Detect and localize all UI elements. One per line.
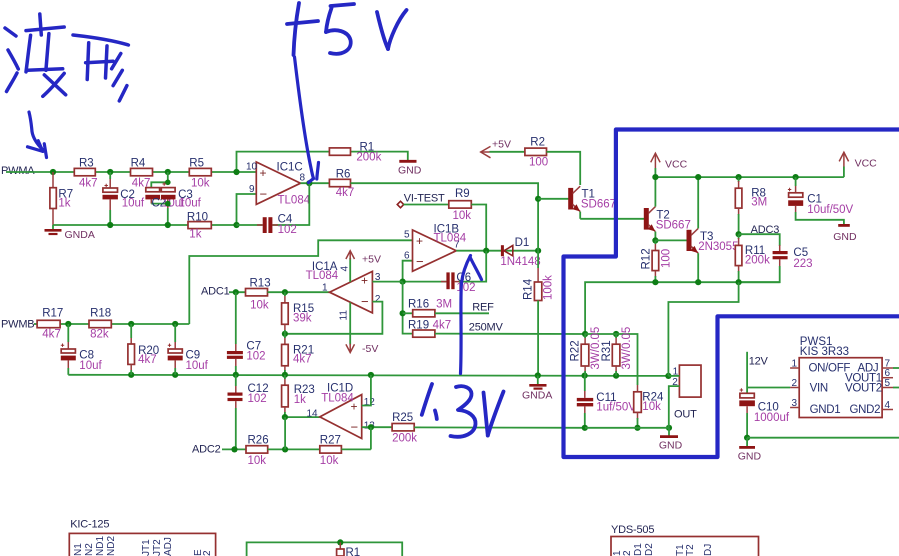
node 12V	[747, 352, 790, 394]
transistor T1	[568, 186, 616, 219]
svg-text:TL084: TL084	[278, 195, 311, 207]
wire VCC rail	[652, 174, 844, 180]
resistor R14	[523, 251, 555, 376]
wire 12V ground rail	[744, 435, 899, 441]
ground GND under C1	[833, 225, 857, 243]
wire GNDA rail	[68, 372, 671, 379]
svg-text:1N4148: 1N4148	[500, 256, 540, 268]
svg-text:1k: 1k	[58, 198, 70, 210]
svg-text:VI-TEST: VI-TEST	[404, 192, 445, 204]
svg-text:REF: REF	[472, 302, 494, 314]
svg-text:2: 2	[375, 294, 381, 305]
svg-text:YDS-505: YDS-505	[611, 524, 654, 536]
svg-text:39k: 39k	[293, 313, 312, 325]
svg-text:D1: D1	[515, 237, 530, 249]
capacitor C8	[61, 324, 103, 375]
svg-text:R5: R5	[189, 158, 204, 170]
node ADC1	[201, 286, 246, 298]
svg-text:+5V: +5V	[362, 254, 381, 266]
resistor R1	[329, 142, 381, 164]
svg-text:+: +	[416, 234, 423, 248]
svg-text:R16: R16	[408, 299, 429, 311]
capacitor C9	[168, 324, 209, 375]
svg-text:−: −	[416, 254, 424, 269]
resistor R17	[37, 308, 63, 341]
wire output bottom rail	[582, 425, 672, 431]
annotation handwriting 45V	[287, 3, 407, 55]
resistor R31	[601, 327, 633, 376]
capacitor C1	[788, 177, 854, 225]
svg-text:R2: R2	[530, 137, 545, 149]
svg-text:100k: 100k	[543, 275, 555, 300]
node junction C3 top	[165, 169, 171, 175]
resistor R16	[408, 299, 489, 317]
wire T1 emitter to T2 base	[580, 218, 644, 220]
node junction pin10	[233, 169, 239, 175]
annotation blue border polyline	[564, 130, 899, 458]
ground GND under C10	[738, 438, 762, 463]
wire bottom rail row1	[53, 224, 237, 226]
wire 250MV rail	[435, 322, 585, 335]
resistor R18	[89, 308, 111, 341]
diode D1	[500, 237, 540, 268]
svg-text:102: 102	[248, 393, 267, 405]
wire R27 to pin13	[341, 448, 371, 450]
svg-text:4k7: 4k7	[138, 354, 157, 366]
svg-text:5: 5	[885, 378, 891, 389]
wire IC1C output	[301, 180, 330, 186]
wire IC1A pin2 loop	[282, 302, 383, 337]
svg-text:GND: GND	[833, 231, 857, 243]
pin 5 PWS1	[882, 378, 899, 389]
capacitor C10	[739, 388, 790, 437]
svg-text:PWMA: PWMA	[1, 165, 35, 177]
resistor R2	[525, 137, 548, 169]
svg-text:VCC: VCC	[665, 159, 688, 171]
wire PWMA main row	[6, 171, 256, 173]
resistor R21	[282, 334, 315, 375]
svg-text:9: 9	[249, 184, 255, 195]
svg-text:1k: 1k	[294, 394, 306, 406]
resistor R24	[634, 392, 664, 428]
transistor T2	[644, 177, 691, 240]
svg-text:−: −	[361, 294, 369, 309]
wire R22/R31 top rail	[582, 331, 638, 392]
resistor R4	[131, 158, 153, 190]
svg-text:12V: 12V	[749, 356, 769, 368]
svg-text:R31: R31	[601, 340, 613, 361]
svg-text:R12: R12	[641, 248, 653, 269]
wire R1 feedback row	[237, 152, 408, 172]
wire R26-R27	[268, 417, 320, 452]
wire VI-TEST to R9	[404, 204, 449, 206]
node ADC2	[192, 444, 246, 456]
svg-text:10uf: 10uf	[179, 197, 202, 209]
svg-text:ADJ: ADJ	[163, 537, 174, 556]
svg-text:223: 223	[793, 258, 812, 270]
node junction C2 top	[107, 169, 113, 175]
svg-text:10uf: 10uf	[186, 360, 209, 372]
svg-text:TL084: TL084	[306, 270, 339, 282]
svg-text:10k: 10k	[642, 401, 661, 413]
svg-text:10: 10	[246, 162, 258, 173]
resistor R19	[408, 320, 451, 338]
resistor R20	[128, 324, 159, 375]
op-amp IC1B	[404, 224, 467, 272]
resistor R8	[735, 177, 767, 234]
svg-text:+5V: +5V	[492, 139, 511, 151]
power VCC arrow 2	[839, 152, 877, 177]
node junction D1 out	[535, 248, 541, 254]
svg-text:8: 8	[300, 173, 306, 184]
annotation pointer 45V to node	[295, 57, 319, 183]
resistor R12	[641, 240, 673, 282]
svg-text:+: +	[260, 166, 267, 180]
svg-text:3M: 3M	[751, 197, 767, 209]
op-amp IC1D (mirrored)	[320, 383, 375, 439]
svg-text:R14: R14	[523, 278, 535, 300]
svg-text:2: 2	[792, 378, 798, 389]
svg-text:102: 102	[456, 282, 475, 294]
resistor R22	[570, 327, 603, 376]
svg-text:10uf: 10uf	[122, 198, 145, 210]
node ADC3	[739, 224, 780, 246]
capacitor C6	[403, 251, 487, 294]
svg-text:200k: 200k	[356, 152, 381, 164]
node junction R7	[50, 169, 56, 175]
svg-text:3: 3	[792, 398, 798, 409]
capacitor C3	[161, 182, 202, 225]
svg-text:KIS 3R33: KIS 3R33	[800, 346, 849, 358]
svg-text:PWMB: PWMB	[1, 319, 34, 331]
node junction rail dots	[107, 222, 171, 228]
wire C4 feedback	[237, 183, 310, 225]
wire R6 to T1 base node	[351, 183, 539, 199]
resistor R5	[189, 158, 211, 190]
wire pin13 row	[362, 424, 392, 449]
op-amp IC1C	[246, 162, 311, 207]
svg-text:R25: R25	[392, 412, 413, 424]
ground GNDA center	[522, 376, 552, 402]
resistor R23	[282, 375, 315, 417]
svg-text:6: 6	[404, 251, 410, 262]
capacitor C4	[257, 214, 297, 236]
wire R16/R19 branch	[400, 282, 413, 334]
svg-text:GNDA: GNDA	[522, 390, 552, 402]
svg-text:250MV: 250MV	[469, 322, 504, 334]
svg-text:+: +	[361, 274, 368, 288]
svg-text:VCC: VCC	[855, 158, 878, 170]
wire D1 node to T1 base node	[535, 196, 541, 251]
annotation handwriting 1.3V	[422, 384, 504, 437]
capacitor C7	[227, 292, 266, 375]
svg-text:ND2: ND2	[106, 536, 117, 556]
svg-text:4k7: 4k7	[433, 320, 452, 332]
wire IC1B output	[456, 248, 501, 254]
svg-text:R17: R17	[42, 308, 63, 320]
capacitor C21	[145, 188, 185, 210]
svg-text:200k: 200k	[745, 255, 770, 267]
svg-text:R13: R13	[250, 278, 271, 290]
svg-text:R3: R3	[79, 158, 94, 170]
wire IC1A pin3 to node	[372, 281, 402, 283]
svg-text:SD667: SD667	[656, 220, 691, 232]
svg-text:ADC2: ADC2	[192, 444, 221, 456]
transistor T3	[687, 177, 739, 282]
wire bottom power loop	[247, 539, 403, 556]
annotation handwriting 形	[73, 35, 128, 101]
svg-text:10uf/50V: 10uf/50V	[807, 204, 853, 216]
svg-text:1: 1	[322, 283, 328, 294]
svg-text:100: 100	[529, 157, 548, 169]
svg-text:14: 14	[307, 409, 319, 420]
op-amp IC1A (mirrored)	[306, 261, 381, 321]
svg-text:10k: 10k	[320, 455, 339, 467]
svg-text:82k: 82k	[90, 329, 109, 341]
svg-text:1: 1	[792, 359, 798, 370]
power VCC arrow 1	[651, 153, 688, 177]
svg-text:JT2: JT2	[152, 539, 163, 556]
svg-text:3M: 3M	[436, 299, 452, 311]
ground GNDA left	[45, 225, 95, 241]
annotation pointer 1.3V to C6	[461, 256, 482, 374]
svg-text:102: 102	[246, 351, 265, 363]
svg-text:VIN: VIN	[810, 383, 828, 395]
svg-text:GND2: GND2	[850, 404, 881, 416]
svg-text:4k7: 4k7	[336, 187, 355, 199]
power +5V arrow IC1A	[346, 251, 381, 282]
svg-text:1k: 1k	[189, 229, 201, 241]
node junction ADC1	[233, 289, 239, 295]
svg-text:VOUT2: VOUT2	[845, 383, 882, 395]
svg-text:TL084: TL084	[321, 393, 354, 405]
wire R13 to IC1A out	[268, 289, 330, 295]
svg-text:R27: R27	[320, 435, 341, 447]
connector YDS-505	[611, 524, 759, 556]
pin 1 PWS1	[790, 359, 799, 370]
svg-text:T2: T2	[685, 544, 696, 556]
svg-text:R6: R6	[336, 169, 351, 181]
svg-text:OUT: OUT	[674, 409, 697, 421]
svg-text:10k: 10k	[250, 300, 269, 312]
resistor R6	[329, 169, 354, 200]
wire T3 base	[655, 239, 687, 241]
svg-text:GND: GND	[398, 165, 422, 177]
power -5V arrow IC1A	[346, 303, 378, 356]
svg-text:R19: R19	[408, 320, 429, 332]
svg-text:10k: 10k	[453, 210, 472, 222]
svg-text:5: 5	[404, 230, 410, 241]
svg-text:N1: N1	[73, 543, 84, 556]
resistor R9	[449, 188, 472, 222]
capacitor C5	[739, 245, 813, 282]
wire to OUT pin1	[668, 282, 738, 376]
svg-text:10uf: 10uf	[79, 360, 102, 372]
svg-text:2: 2	[622, 550, 633, 556]
svg-text:DJ: DJ	[703, 544, 714, 556]
pin 7 PWS1	[882, 359, 899, 370]
pin 3 PWS1	[790, 398, 799, 409]
svg-text:10k: 10k	[248, 455, 267, 467]
wire IC1B pin6	[403, 261, 413, 282]
connector OUT	[668, 365, 701, 428]
svg-text:2: 2	[202, 550, 213, 556]
svg-text:100: 100	[661, 249, 673, 268]
resistor R40 bottom	[337, 542, 361, 556]
resistor R10	[187, 212, 211, 241]
svg-text:1uf/50V: 1uf/50V	[596, 402, 636, 414]
svg-text:R9: R9	[455, 188, 470, 200]
svg-text:GND: GND	[738, 451, 762, 463]
annotation arrow to PWMA	[28, 112, 47, 158]
wire PWMB row	[34, 321, 189, 327]
power +5V arrow left	[481, 139, 511, 158]
ground GND under R1	[398, 161, 422, 176]
svg-text:4k7: 4k7	[79, 178, 98, 190]
wire pin14 row	[282, 409, 320, 421]
wire PWMB riser to IC1B pin5	[189, 240, 412, 324]
ic PWS1 KIS 3R33	[799, 336, 882, 418]
svg-text:R26: R26	[248, 435, 269, 447]
svg-text:R4: R4	[131, 158, 146, 170]
svg-text:D2: D2	[644, 543, 655, 556]
wire +5V to R2	[490, 151, 525, 153]
wire R9 to output node	[471, 205, 486, 251]
capacitor C2	[103, 172, 145, 225]
svg-text:SD667: SD667	[581, 199, 616, 211]
svg-text:ADC1: ADC1	[201, 286, 230, 298]
svg-text:GNDA: GNDA	[65, 229, 95, 241]
resistor R25	[392, 412, 417, 445]
svg-text:11: 11	[339, 310, 350, 321]
svg-text:KIC-125: KIC-125	[70, 519, 109, 531]
svg-text:R22: R22	[570, 340, 582, 361]
svg-text:ND1: ND1	[95, 536, 106, 556]
capacitor C11	[577, 376, 636, 428]
capacitor C12	[228, 375, 269, 450]
annotation handwriting 波	[5, 14, 66, 96]
svg-text:JT1: JT1	[141, 539, 152, 556]
ground GND under OUT	[659, 428, 683, 452]
svg-text:D1: D1	[633, 543, 644, 556]
wire R25 to output rail	[414, 426, 585, 428]
wire emitter rail	[585, 279, 780, 334]
wire pin12 to rail	[362, 375, 371, 406]
svg-text:1000uf: 1000uf	[754, 412, 790, 424]
connector KIC-125	[69, 519, 215, 556]
svg-text:102: 102	[278, 224, 297, 236]
svg-text:4: 4	[340, 266, 351, 272]
node PWMA	[1, 165, 35, 177]
pin 2 PWS1	[790, 378, 799, 389]
svg-text:2N3055: 2N3055	[698, 241, 738, 253]
resistor R13	[246, 278, 271, 312]
resistor R27	[320, 435, 342, 467]
svg-text:4: 4	[885, 400, 891, 411]
svg-text:TL084: TL084	[434, 233, 467, 245]
pin 6 PWS1	[882, 368, 893, 379]
svg-text:10k: 10k	[191, 178, 210, 190]
wire pin9 branch	[233, 194, 256, 228]
wire C21/C3 bracket	[151, 172, 170, 188]
svg-text:4k7: 4k7	[293, 354, 312, 366]
resistor R7	[50, 172, 73, 225]
svg-text:2: 2	[672, 377, 678, 388]
resistor R3	[74, 158, 97, 190]
resistor R11	[735, 234, 770, 282]
svg-text:−: −	[260, 187, 268, 202]
svg-text:3W/0.05: 3W/0.05	[621, 327, 633, 370]
wire R2 to T1 collector	[547, 152, 581, 185]
svg-text:R18: R18	[90, 308, 111, 320]
svg-text:N2: N2	[84, 543, 95, 556]
svg-text:200k: 200k	[392, 433, 417, 445]
svg-text:GND: GND	[659, 440, 683, 452]
node junction T2 emitter	[652, 237, 658, 243]
pin 4 PWS1	[882, 400, 893, 411]
node junction R8 bottom	[736, 231, 742, 237]
resistor R15	[282, 292, 315, 334]
node VI-TEST	[397, 192, 445, 207]
svg-text:R10: R10	[187, 212, 208, 224]
svg-text:IC1C: IC1C	[277, 162, 303, 174]
svg-text:-5V: -5V	[362, 343, 378, 355]
resistor R26	[246, 435, 269, 467]
svg-text:GND1: GND1	[810, 404, 841, 416]
svg-text:4k7: 4k7	[42, 329, 61, 341]
svg-text:−: −	[351, 420, 359, 435]
wire T1 base	[538, 198, 569, 200]
node junction pin3 row	[400, 279, 406, 285]
svg-text:R1: R1	[346, 547, 361, 556]
